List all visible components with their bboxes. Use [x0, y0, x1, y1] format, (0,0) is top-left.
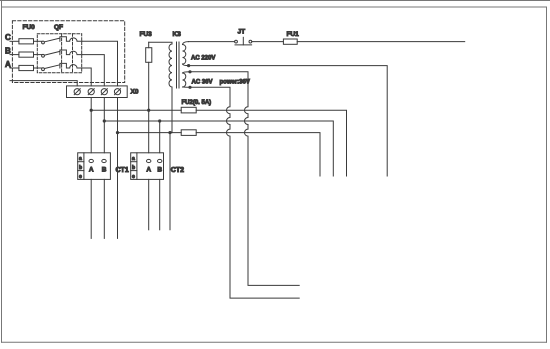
svg-text:B: B: [102, 167, 107, 174]
svg-text:K3: K3: [173, 31, 182, 38]
node B (input phase B): [5, 47, 19, 56]
wire QF pole A to X0: [82, 68, 91, 86]
breaker QF pole C: [42, 41, 45, 44]
wire phase C to KM4: [169, 133, 171, 230]
svg-text:A: A: [146, 167, 151, 174]
wire 36V live (to terminal 9, with crossover hops): [190, 72, 299, 286]
enclosure dashed box: [12, 21, 124, 83]
svg-text:FU1: FU1: [287, 31, 300, 38]
CT box CT2: [131, 153, 184, 180]
wire 220V coil bus: [297, 41, 465, 43]
svg-text:CT2: CT2: [171, 167, 184, 174]
svg-text:a: a: [79, 156, 82, 162]
svg-text:FU3: FU3: [140, 31, 153, 38]
wire phase B input: [10, 54, 19, 56]
breaker QF: [37, 24, 82, 72]
switch JT: [235, 29, 252, 45]
wire neutral input: [10, 81, 77, 86]
node A (input phase A): [5, 60, 19, 69]
svg-text:FU2(0. 5A): FU2(0. 5A): [182, 100, 212, 106]
svg-text:A: A: [89, 167, 94, 174]
node C (input phase C): [5, 33, 19, 42]
wire CT2-B to KM4: [159, 179, 161, 229]
wire QF pole C to X0: [82, 41, 118, 86]
terminal block X0: [67, 86, 139, 98]
svg-text:AC 36V: AC 36V: [192, 79, 213, 85]
wire phase A drop (X0 to CT1-A, motor): [90, 98, 92, 153]
fuse FU2 (0.5A) pair: [181, 100, 211, 135]
wire 220V live: [189, 41, 235, 43]
transformer K3: [149, 31, 250, 133]
svg-text:JT: JT: [238, 29, 246, 36]
svg-text:power:36V: power:36V: [220, 79, 250, 85]
wire phase C drop (X0 to rail uc and motor): [117, 98, 119, 239]
svg-text:CT1: CT1: [116, 167, 129, 174]
wire rail uc (phase C to terminal 21): [118, 132, 182, 134]
CT box CT1: [78, 153, 129, 180]
wire 36V neutral (to terminal 10, with crossover hops): [190, 87, 299, 298]
secondary winding 36V: [183, 73, 186, 87]
svg-text:B: B: [157, 167, 162, 174]
wire JT to FU1: [252, 41, 284, 43]
primary winding: [169, 44, 172, 87]
breaker QF pole B: [42, 54, 45, 57]
svg-text:X0: X0: [131, 89, 139, 96]
svg-text:a: a: [132, 156, 135, 162]
wire phase B drop (X0 to CT1-B): [103, 98, 105, 153]
junction rail dots: [90, 109, 172, 135]
wire 220V return to terminal 13: [189, 66, 388, 176]
svg-text:c: c: [132, 174, 135, 180]
svg-text:C: C: [5, 33, 11, 42]
fuse FU0 (3 poles): [19, 24, 42, 70]
svg-text:c: c: [79, 174, 82, 180]
wire CT2-B drop from rail ub: [159, 121, 161, 153]
svg-text:FU0: FU0: [23, 24, 36, 31]
wire CT1-A to motor branch: [90, 179, 92, 238]
wire phase C input: [10, 40, 19, 42]
wire CT2-A to KM4: [148, 179, 150, 229]
svg-text:b: b: [79, 165, 82, 171]
fuse FU3: [140, 31, 153, 153]
core: [176, 42, 178, 88]
wire phase A input: [10, 67, 19, 69]
wire QF pole B to X0: [82, 55, 104, 86]
fuse FU1: [283, 31, 299, 44]
secondary winding 220V: [183, 45, 186, 65]
wire CT1-B to motor branch: [103, 179, 105, 238]
wire rail ub (phase B to terminal 20): [104, 121, 333, 176]
wire rail ua (phase A to terminal 19): [91, 109, 181, 111]
svg-text:AC 220V: AC 220V: [191, 56, 215, 62]
breaker QF pole A: [42, 68, 45, 71]
svg-text:QF: QF: [54, 24, 63, 31]
svg-text:b: b: [132, 165, 135, 171]
